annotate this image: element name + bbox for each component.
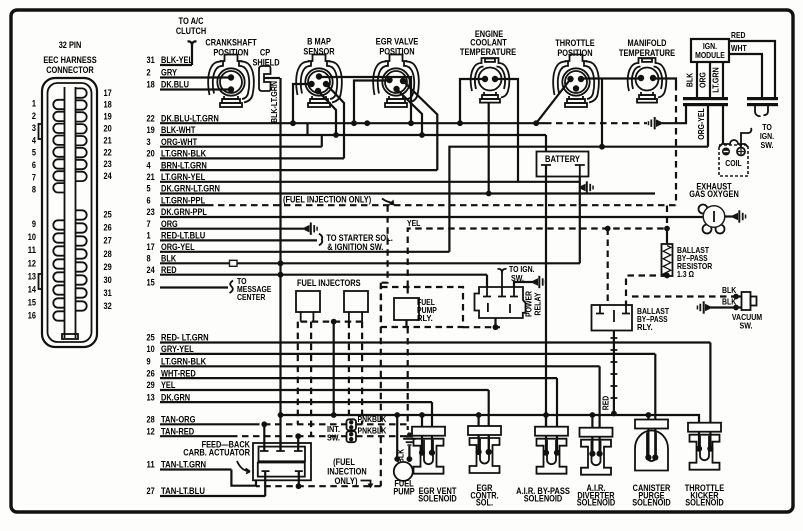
svg-text:EGR VALVE: EGR VALVE (376, 36, 419, 46)
svg-text:EEC HARNESS: EEC HARNESS (43, 55, 96, 65)
solenoid supply bus (281, 415, 700, 423)
svg-text:SOLENOID: SOLENOID (685, 498, 724, 508)
svg-text:28: 28 (104, 249, 112, 259)
svg-text:24: 24 (147, 265, 155, 275)
svg-text:1: 1 (32, 99, 36, 109)
svg-text:CP: CP (260, 48, 270, 58)
actuator lower pins (262, 470, 303, 472)
svg-text:CLUTCH: CLUTCH (176, 26, 206, 36)
svg-text:(FUEL: (FUEL (333, 457, 355, 467)
AIR by-pass solenoid (545, 415, 547, 427)
to starter sol & ignition sw (319, 234, 322, 246)
svg-text:SOLENOID: SOLENOID (632, 498, 671, 508)
svg-text:5: 5 (147, 184, 151, 194)
svg-text:BRN-LT.GRN: BRN-LT.GRN (161, 160, 207, 170)
svg-text:5: 5 (32, 148, 36, 158)
injector common feed down to bus (333, 322, 335, 415)
svg-text:3: 3 (32, 123, 36, 133)
svg-text:27: 27 (147, 486, 155, 496)
svg-text:2: 2 (147, 68, 151, 78)
svg-text:WHT: WHT (731, 43, 747, 53)
svg-text:TAN-RED: TAN-RED (161, 426, 195, 436)
LT.GRN wire from bar to coil (722, 106, 724, 144)
dashed injector drops (297, 322, 299, 425)
open inline connector on row 8 (230, 260, 238, 266)
coolant left pin wire (460, 79, 485, 123)
svg-text:28: 28 (147, 415, 155, 425)
dashed link relay box to power relay (463, 326, 500, 328)
svg-text:TO A/C: TO A/C (179, 16, 204, 26)
svg-text:TAN-LT.BLU: TAN-LT.BLU (161, 486, 205, 496)
power relay to ign sw hook (498, 269, 507, 287)
battery (537, 152, 589, 177)
svg-text:32: 32 (104, 301, 112, 311)
canister purge solenoid (647, 415, 649, 420)
svg-text:TAN-LT.GRN: TAN-LT.GRN (161, 460, 206, 470)
EGR vent solenoid (421, 415, 423, 427)
svg-text:20: 20 (147, 149, 155, 159)
svg-text:DK.GRN-LT.GRN: DK.GRN-LT.GRN (161, 184, 220, 194)
actuator boxes (253, 443, 311, 480)
svg-text:2: 2 (32, 111, 36, 121)
module wires BLK ORG LT.GRN (696, 62, 698, 97)
svg-text:22: 22 (147, 113, 155, 123)
svg-text:POSITION: POSITION (557, 48, 592, 58)
svg-text:23: 23 (147, 207, 155, 217)
svg-text:BLK: BLK (161, 254, 177, 264)
EGR bottom pin diagonal to row 19 (397, 89, 423, 135)
svg-text:19: 19 (147, 125, 155, 135)
svg-text:8: 8 (32, 185, 36, 195)
actuator pins from above (264, 424, 298, 451)
svg-text:BLK-WHT: BLK-WHT (161, 125, 196, 135)
svg-text:3: 3 (147, 137, 151, 147)
svg-text:16: 16 (28, 311, 36, 321)
svg-text:RED: RED (731, 30, 746, 40)
svg-text:MODULE: MODULE (695, 50, 725, 60)
svg-text:8: 8 (147, 254, 151, 264)
svg-text:6: 6 (32, 160, 36, 170)
svg-text:32 PIN: 32 PIN (59, 40, 82, 50)
svg-text:POSITION: POSITION (213, 48, 248, 58)
connector pins right top (17-24) (76, 88, 87, 97)
svg-text:ORG: ORG (161, 219, 178, 229)
svg-text:ORG-YEL: ORG-YEL (161, 242, 195, 252)
svg-text:DK.BLU: DK.BLU (161, 80, 189, 90)
svg-text:BLK: BLK (722, 297, 736, 307)
svg-text:LT.GRN-BLK: LT.GRN-BLK (161, 357, 207, 367)
battery negative lead down to row 8 (579, 177, 581, 264)
B MAP bottom pin diagonal to row 19 (318, 91, 336, 135)
svg-text:22: 22 (104, 147, 112, 157)
manifold right pin wire (dashed to fuel-injection loop) (653, 79, 676, 85)
svg-text:RLY.: RLY. (637, 322, 653, 332)
fuel pump relay element (394, 298, 419, 320)
EGR right pin diagonal to row 4 (403, 81, 437, 170)
svg-text:GRY: GRY (161, 68, 177, 78)
svg-text:SW.: SW. (761, 140, 774, 150)
svg-text:21: 21 (104, 135, 112, 145)
svg-text:MANIFOLD: MANIFOLD (628, 38, 667, 48)
svg-text:RELAY: RELAY (533, 292, 543, 316)
throttle right pin to manifold link (581, 77, 641, 79)
svg-text:26: 26 (147, 368, 155, 378)
AIR diverter solenoid (591, 415, 593, 428)
throttle kicker solenoid (698, 422, 700, 424)
battery positive feed down to AIR bypass (545, 165, 547, 427)
svg-text:4: 4 (147, 160, 151, 170)
dashed drop to ballast by-pass relay (607, 229, 609, 306)
svg-text:25: 25 (104, 210, 112, 220)
svg-text:29: 29 (104, 262, 112, 272)
EGR contr solenoid (478, 415, 480, 426)
leads to ign switch (755, 106, 761, 116)
svg-text:BLK: BLK (722, 285, 736, 295)
svg-text:9: 9 (147, 357, 151, 367)
connector pins left top (1-8) (53, 100, 64, 109)
fuel pump relay output (dashed) (407, 320, 408, 430)
svg-text:19: 19 (104, 112, 112, 122)
svg-text:FUEL INJECTORS: FUEL INJECTORS (297, 278, 361, 288)
svg-text:RED: RED (161, 265, 177, 275)
svg-text:LT.GRN-BLK: LT.GRN-BLK (161, 149, 207, 159)
svg-text:DK.GRN-PPL: DK.GRN-PPL (161, 207, 207, 217)
connector pins right bottom (25-32) (76, 210, 87, 219)
svg-text:CARB. ACTUATOR: CARB. ACTUATOR (183, 447, 250, 457)
svg-text:LT.GRN-YEL: LT.GRN-YEL (161, 172, 206, 182)
B MAP right pin diagonal to row 20 (326, 84, 344, 158)
svg-text:ORG-YEL: ORG-YEL (696, 108, 706, 139)
row 19 feed down to battery (545, 135, 547, 152)
svg-text:12: 12 (147, 426, 155, 436)
svg-text:20: 20 (104, 124, 112, 134)
fuel pump relay feed into element (407, 287, 409, 298)
dashed enclosure lower edge (256, 283, 381, 487)
svg-text:SW.: SW. (327, 433, 340, 443)
power relay pin to connector (514, 282, 533, 287)
svg-text:(FUEL INJECTION ONLY): (FUEL INJECTION ONLY) (283, 195, 371, 205)
svg-text:CONNECTOR: CONNECTOR (46, 65, 94, 75)
connector symbol on row 7 (305, 223, 318, 235)
RED wire with ticks to bus (613, 331, 615, 414)
svg-text:YEL: YEL (407, 218, 420, 228)
svg-text:PNKBLK: PNKBLK (358, 414, 387, 424)
svg-text:RLY.: RLY. (417, 313, 433, 323)
svg-text:24: 24 (104, 171, 112, 181)
B MAP left pin wire (293, 84, 312, 123)
svg-text:DK.GRN: DK.GRN (161, 392, 190, 402)
fuel pump ground connector (403, 433, 415, 446)
ballast by-pass resistor (666, 229, 668, 245)
svg-text:12: 12 (28, 258, 36, 268)
coolant bottom pin wire to row 5 (488, 103, 490, 194)
svg-text:26: 26 (104, 223, 112, 233)
fuel pump relay dashed box (381, 287, 463, 327)
connector keying tabs (39, 124, 43, 139)
IGN. MODULE box (691, 39, 729, 62)
drop to row 3 (601, 79, 603, 147)
svg-text:14: 14 (28, 285, 36, 295)
svg-text:SOLENOID: SOLENOID (418, 493, 457, 503)
svg-text:ORG-WHT: ORG-WHT (161, 137, 198, 147)
svg-text:7: 7 (147, 219, 151, 229)
svg-text:31: 31 (147, 55, 155, 65)
svg-text:TEMPERATURE: TEMPERATURE (619, 48, 675, 58)
svg-text:11: 11 (28, 245, 36, 255)
svg-text:18: 18 (104, 100, 112, 110)
B MAP top pin wire (319, 77, 411, 123)
connector center rail (64, 87, 66, 338)
power relay coil feed from row 24 (486, 275, 488, 287)
svg-text:RED: RED (601, 396, 611, 411)
svg-text:31: 31 (104, 288, 112, 298)
svg-text:RED- LT.GRN: RED- LT.GRN (161, 333, 209, 343)
svg-text:4: 4 (32, 135, 36, 145)
power relay ground leg (494, 318, 496, 327)
svg-text:23: 23 (104, 159, 112, 169)
row 24 RED drop to bus (279, 275, 281, 451)
svg-text:WHT-RED: WHT-RED (161, 368, 196, 378)
svg-text:DK.BLU-LT.GRN: DK.BLU-LT.GRN (161, 113, 219, 123)
svg-text:9: 9 (32, 219, 36, 229)
row 11 jog into actuator (231, 470, 256, 486)
svg-text:17: 17 (104, 88, 112, 98)
svg-text:B MAP: B MAP (307, 36, 331, 46)
svg-text:17: 17 (147, 242, 155, 252)
svg-text:LT.GRN: LT.GRN (711, 67, 721, 93)
svg-text:SOLENOID: SOLENOID (524, 493, 563, 503)
svg-text:15: 15 (147, 278, 155, 288)
EGR left pin wire (354, 81, 390, 124)
svg-text:ORG: ORG (698, 72, 708, 88)
svg-text:RED-LT.BLU: RED-LT.BLU (161, 231, 205, 241)
svg-text:CENTER: CENTER (237, 292, 265, 302)
svg-text:TEMPERATURE: TEMPERATURE (460, 47, 516, 57)
svg-text:THROTTLE: THROTTLE (555, 38, 594, 48)
svg-text:COIL: COIL (725, 158, 742, 168)
svg-text:18: 18 (147, 80, 155, 90)
svg-text:GRY-YEL: GRY-YEL (161, 344, 194, 354)
svg-text:& IGNITION SW.: & IGNITION SW. (327, 242, 383, 252)
row 22 to row 19 jog (306, 123, 308, 135)
coil + lead to ign sw (741, 128, 751, 147)
BLK wire down-left to connector (661, 106, 686, 123)
coil (719, 145, 748, 176)
module connector bar (683, 97, 728, 100)
row 22 dashed tail (545, 122, 647, 124)
injector legs (301, 312, 362, 322)
svg-text:BLK: BLK (685, 73, 695, 87)
power relay outline (475, 287, 526, 318)
svg-text:6: 6 (147, 195, 151, 205)
svg-text:SOLENOID: SOLENOID (577, 498, 616, 508)
svg-text:15: 15 (28, 298, 36, 308)
svg-text:INJECTION: INJECTION (327, 467, 366, 477)
svg-text:7: 7 (32, 172, 36, 182)
svg-text:27: 27 (104, 236, 112, 246)
svg-text:1.3 Ω: 1.3 Ω (677, 269, 694, 279)
svg-text:10: 10 (28, 232, 36, 242)
svg-text:13: 13 (147, 392, 155, 402)
svg-text:ONLY): ONLY) (335, 476, 358, 486)
svg-text:BATTERY: BATTERY (545, 154, 580, 164)
int sw connectors (347, 419, 357, 430)
svg-text:SOL.: SOL. (476, 498, 493, 508)
svg-text:SW.: SW. (740, 321, 753, 331)
svg-text:25: 25 (147, 333, 155, 343)
svg-text:11: 11 (147, 460, 155, 470)
svg-text:YEL: YEL (161, 380, 176, 390)
svg-text:LT.GRN-PPL: LT.GRN-PPL (161, 195, 206, 205)
svg-text:BLK-YEL: BLK-YEL (161, 55, 193, 65)
ballast by-pass relay box (592, 305, 633, 331)
row 3 to row 19 jog (321, 135, 323, 147)
svg-text:BLK-LT.GRN: BLK-LT.GRN (269, 81, 279, 123)
svg-text:1: 1 (147, 231, 151, 241)
ORG-YEL link from ign module to row 17 riser (449, 147, 708, 252)
svg-text:10: 10 (147, 344, 155, 354)
ign sw connector bar (747, 97, 778, 100)
fuel pump (394, 462, 413, 481)
svg-text:CRANKSHAFT: CRANKSHAFT (205, 37, 257, 47)
svg-text:30: 30 (104, 275, 112, 285)
throttle left pin diagonal to row 22 (536, 79, 570, 123)
svg-text:29: 29 (147, 380, 155, 390)
svg-text:PNKBLK: PNKBLK (358, 426, 387, 436)
svg-text:13: 13 (28, 271, 36, 281)
resistor bottom dashed to relay (626, 276, 667, 306)
svg-text:21: 21 (147, 172, 155, 182)
coolant right pin wire (495, 79, 518, 182)
dashed enclosure left edge (381, 205, 388, 283)
svg-text:PUMP: PUMP (393, 487, 414, 497)
EEC connector shell (42, 78, 97, 347)
power relay pins (483, 287, 491, 297)
connector pins left bottom (9-16) (53, 220, 64, 229)
svg-text:TAN-ORG: TAN-ORG (161, 415, 195, 425)
dashed branch row6 to ballast resistor (666, 206, 668, 230)
svg-text:GAS OXYGEN: GAS OXYGEN (689, 189, 739, 199)
